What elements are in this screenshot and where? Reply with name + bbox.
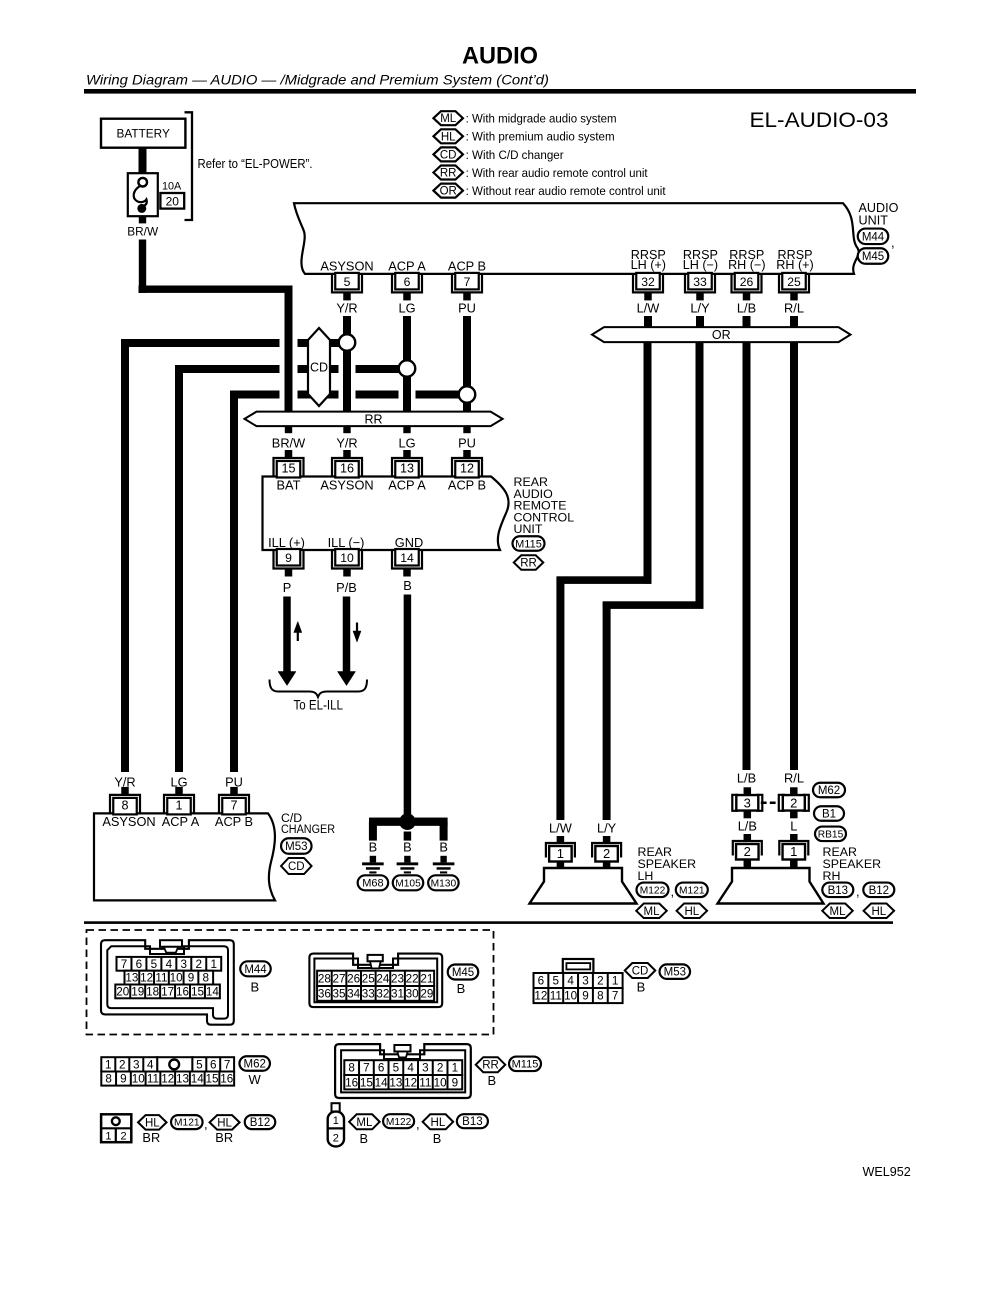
- svg-text:B: B: [403, 578, 412, 593]
- svg-text:1: 1: [790, 844, 797, 859]
- svg-text:HL: HL: [145, 1117, 160, 1129]
- dashed group box (M44/M45): [87, 930, 494, 1035]
- section divider line: [84, 921, 893, 924]
- connector M121 oval: [676, 883, 708, 898]
- svg-text:HL: HL: [684, 906, 699, 918]
- wire L/Y pin33 down: [696, 316, 704, 327]
- arrow down (illumination -): [356, 623, 358, 634]
- svg-text:M44: M44: [244, 964, 267, 976]
- option hexagon HL (RH speaker): [864, 904, 895, 919]
- svg-text:1: 1: [612, 975, 619, 988]
- svg-text:1: 1: [333, 1115, 339, 1127]
- svg-text:9: 9: [188, 972, 195, 985]
- svg-text:1: 1: [557, 846, 564, 861]
- svg-text:27: 27: [333, 972, 346, 985]
- svg-text:BR/W: BR/W: [127, 224, 159, 238]
- svg-text:PU: PU: [458, 300, 476, 315]
- svg-text:B: B: [487, 1073, 496, 1088]
- svg-text:EL-AUDIO-03: EL-AUDIO-03: [750, 108, 889, 132]
- svg-text:M45: M45: [862, 251, 884, 263]
- svg-text:M121: M121: [174, 1118, 200, 1129]
- connector face M45 latch: [368, 955, 383, 961]
- connector face M44 pin row 3: [115, 985, 220, 999]
- svg-text:B12: B12: [869, 885, 889, 897]
- svg-text:B13: B13: [828, 885, 848, 897]
- svg-text:B: B: [457, 981, 466, 996]
- wire stub + label LG above pin: [403, 426, 410, 433]
- connector face M53 pin row 2: [534, 988, 623, 1003]
- svg-text:11: 11: [155, 972, 167, 985]
- wire L/Y below banner elbow: [696, 342, 704, 608]
- svg-text:W: W: [249, 1072, 262, 1087]
- svg-text:RR: RR: [520, 558, 537, 570]
- option hexagon CD on branch wires: [308, 328, 330, 406]
- svg-text:M122: M122: [640, 885, 666, 896]
- wire L/W below banner elbow: [644, 342, 652, 584]
- svg-text:HL: HL: [217, 1117, 232, 1129]
- ground bus horizontal: [369, 818, 448, 826]
- svg-text:ILL (−): ILL (−): [328, 535, 365, 550]
- svg-text:L/B: L/B: [737, 300, 756, 315]
- svg-text:,: ,: [856, 884, 860, 899]
- svg-text:12: 12: [161, 1073, 174, 1086]
- svg-text:ACP B: ACP B: [448, 478, 486, 493]
- svg-text:34: 34: [347, 987, 361, 1000]
- svg-text:1: 1: [175, 798, 182, 812]
- svg-text:2: 2: [120, 1131, 126, 1143]
- option hexagon RR (M115): [476, 1057, 506, 1072]
- connector face M53 pin row 1: [534, 973, 623, 988]
- connector face M44 outline: [101, 940, 234, 1024]
- svg-text:UNIT: UNIT: [859, 214, 889, 228]
- connector face M62 pin row 2: [101, 1072, 234, 1086]
- svg-text:: Without rear audio remote co: : Without rear audio remote control unit: [466, 184, 667, 198]
- svg-text:1: 1: [105, 1131, 111, 1143]
- svg-text:10: 10: [340, 551, 354, 565]
- ground symbol M105: [404, 856, 410, 863]
- svg-text:3: 3: [181, 958, 188, 971]
- junction circle LG: [399, 360, 416, 377]
- svg-text:LH: LH: [638, 869, 654, 883]
- svg-text:14: 14: [206, 985, 220, 998]
- svg-text:9: 9: [582, 990, 589, 1003]
- svg-text:1: 1: [210, 958, 217, 971]
- connector face M45 pin row 1: [317, 971, 434, 986]
- ground branch mid stub: [404, 832, 412, 841]
- connector face M115 pin row 2: [344, 1075, 462, 1089]
- svg-text:CHANGER: CHANGER: [281, 822, 335, 836]
- audio unit pin 32: [633, 274, 663, 293]
- wire Y/R branch horizontal: [121, 339, 280, 347]
- connector M122 oval: [637, 883, 669, 898]
- svg-text:4: 4: [407, 1062, 414, 1075]
- svg-text:B13: B13: [462, 1116, 482, 1128]
- wire LG branch horizontal: [175, 365, 280, 373]
- option hexagon ML (M122): [349, 1114, 380, 1129]
- svg-text:HL: HL: [871, 906, 886, 918]
- svg-text:BR/W: BR/W: [272, 435, 306, 450]
- svg-text:M122: M122: [386, 1117, 412, 1128]
- svg-text:7: 7: [612, 990, 619, 1003]
- svg-text:ASYSON: ASYSON: [102, 814, 155, 829]
- svg-text:9: 9: [120, 1073, 127, 1086]
- connector B13 oval id: [457, 1114, 488, 1128]
- junction circle Y/R: [339, 334, 356, 351]
- connector M122 oval id: [383, 1114, 414, 1128]
- svg-text:ACP B: ACP B: [215, 814, 253, 829]
- C/D changer box: [94, 813, 275, 900]
- svg-text:,: ,: [891, 235, 895, 250]
- svg-text:6: 6: [136, 958, 143, 971]
- connector B12 oval: [863, 883, 894, 898]
- svg-text:19: 19: [131, 985, 144, 998]
- junction circle PU: [459, 386, 476, 403]
- svg-text:GND: GND: [395, 535, 423, 550]
- svg-text:7: 7: [230, 798, 237, 812]
- svg-text:Refer to “EL-POWER”.: Refer to “EL-POWER”.: [198, 156, 313, 171]
- svg-text:6: 6: [538, 975, 545, 988]
- svg-text:L/W: L/W: [637, 300, 661, 315]
- audio unit connector M44 oval: [858, 229, 889, 245]
- svg-text:10: 10: [132, 1073, 146, 1086]
- connector face M115 outline: [335, 1044, 471, 1098]
- svg-text:12: 12: [140, 972, 153, 985]
- svg-text:15: 15: [281, 462, 295, 476]
- svg-text:AUDIO: AUDIO: [462, 43, 538, 70]
- svg-text:12: 12: [460, 462, 474, 476]
- svg-text:11: 11: [419, 1076, 431, 1089]
- svg-text:29: 29: [420, 987, 433, 1000]
- label BR/W (fuse output): [139, 216, 146, 223]
- svg-text:11: 11: [147, 1073, 159, 1086]
- audio unit pin 25: [779, 274, 809, 293]
- wire Y/R pin5 down: [343, 316, 351, 412]
- svg-text:9: 9: [452, 1076, 459, 1089]
- svg-text:ML: ML: [830, 906, 847, 918]
- audio unit pin 33: [685, 274, 715, 293]
- svg-text:25: 25: [362, 972, 376, 985]
- svg-text:33: 33: [693, 275, 707, 289]
- svg-text:L/W: L/W: [549, 821, 573, 836]
- inline connector pin 2 (M62/B1): [790, 787, 798, 795]
- svg-text:20: 20: [166, 194, 180, 208]
- audio unit pin 7: [452, 274, 482, 293]
- svg-text:RR: RR: [365, 412, 383, 426]
- rear speaker RH symbol: [718, 868, 824, 904]
- svg-text:32: 32: [641, 275, 655, 289]
- rear audio remote control unit pin 10: [332, 550, 362, 569]
- svg-text:2: 2: [790, 795, 797, 810]
- svg-text:PU: PU: [458, 435, 476, 450]
- option hexagon HL (B13): [423, 1114, 454, 1129]
- legend RR: [433, 166, 463, 180]
- svg-text:25: 25: [787, 275, 801, 289]
- svg-text:R/L: R/L: [784, 771, 804, 786]
- banner RR: [245, 412, 503, 427]
- svg-text:9: 9: [285, 551, 292, 565]
- svg-text:M62: M62: [244, 1059, 266, 1071]
- svg-text:16: 16: [345, 1076, 358, 1089]
- svg-text:1: 1: [452, 1062, 459, 1075]
- svg-text:2: 2: [744, 844, 751, 859]
- svg-text:OR: OR: [712, 328, 731, 342]
- svg-text:16: 16: [176, 985, 189, 998]
- svg-text:3: 3: [422, 1062, 429, 1075]
- svg-text:32: 32: [376, 987, 389, 1000]
- svg-text:UNIT: UNIT: [514, 522, 543, 536]
- svg-text:LG: LG: [398, 300, 415, 315]
- svg-text:17: 17: [161, 985, 174, 998]
- connector face M44 pin row 1: [117, 957, 222, 971]
- rear speaker RH pin 2: [744, 834, 752, 841]
- svg-text:L: L: [790, 819, 797, 834]
- svg-text:13: 13: [125, 972, 138, 985]
- svg-text:8: 8: [105, 1073, 112, 1086]
- svg-text:M68: M68: [362, 878, 383, 890]
- rear speaker LH symbol: [530, 868, 637, 904]
- arrow up (illumination +): [297, 630, 299, 641]
- svg-text:11: 11: [550, 990, 562, 1003]
- audio unit connector M45 oval: [858, 248, 889, 264]
- svg-text:12: 12: [404, 1076, 417, 1089]
- wire R/L below banner: [790, 342, 798, 770]
- refer-to bracket: [185, 112, 193, 220]
- svg-text:: With rear audio remote contr: : With rear audio remote control unit: [466, 166, 649, 180]
- wire BR/W vertical to RR banner: [139, 240, 146, 293]
- svg-text:7: 7: [363, 1062, 370, 1075]
- svg-text:5: 5: [553, 975, 560, 988]
- svg-text:20: 20: [116, 985, 130, 998]
- C/D changer pin 8: [110, 795, 140, 814]
- audio unit pin 26: [732, 274, 762, 293]
- connector M62 oval (inline): [813, 783, 845, 798]
- connector M44 oval id: [240, 961, 271, 976]
- svg-text:: With premium audio system: : With premium audio system: [466, 130, 615, 144]
- rear audio remote control unit pin 12: [452, 458, 482, 477]
- svg-text:6: 6: [378, 1062, 385, 1075]
- svg-text:B: B: [637, 980, 646, 995]
- svg-text:15: 15: [205, 1073, 219, 1086]
- svg-text:12: 12: [534, 990, 547, 1003]
- svg-text:BATTERY: BATTERY: [117, 127, 170, 141]
- svg-text:LH (−): LH (−): [683, 258, 718, 272]
- svg-text:B12: B12: [250, 1117, 270, 1129]
- svg-text:M53: M53: [664, 967, 686, 979]
- connector M53 oval (C/D): [281, 838, 312, 854]
- svg-text:2: 2: [333, 1133, 339, 1145]
- rear audio remote control unit pin 15: [274, 458, 304, 477]
- C/D changer pin 7: [219, 795, 249, 814]
- svg-text:RB15: RB15: [818, 829, 844, 840]
- svg-text:ML: ML: [440, 113, 457, 125]
- svg-text:8: 8: [121, 798, 128, 812]
- battery: [101, 119, 185, 148]
- svg-text:L/Y: L/Y: [597, 821, 617, 836]
- svg-text:To EL-ILL: To EL-ILL: [294, 698, 344, 713]
- connector M62 oval id: [239, 1056, 270, 1071]
- rear audio remote control unit pin 16: [332, 458, 362, 477]
- svg-text:24: 24: [376, 972, 390, 985]
- svg-text:2: 2: [196, 958, 203, 971]
- connector M68 oval: [358, 875, 389, 890]
- svg-text:31: 31: [391, 987, 404, 1000]
- svg-text:M53: M53: [285, 841, 307, 853]
- connector face M45 pin row 2: [317, 986, 434, 1001]
- rear audio remote control unit pin 9: [274, 550, 304, 569]
- audio unit box: [294, 203, 859, 274]
- option hexagon ML (RH speaker): [822, 904, 853, 919]
- svg-text:CD: CD: [632, 966, 649, 978]
- svg-text:21: 21: [420, 972, 433, 985]
- svg-text:8: 8: [348, 1062, 355, 1075]
- wire L/B pin26 down: [743, 316, 751, 327]
- banner OR: [592, 327, 851, 342]
- svg-text:RH: RH: [823, 869, 841, 883]
- wire L/B below banner: [743, 342, 751, 770]
- svg-text:3: 3: [744, 795, 751, 810]
- wire stub + label Y/R above pin: [343, 426, 350, 433]
- svg-text:ACP A: ACP A: [388, 259, 426, 274]
- option hexagon CD tag (C/D): [281, 858, 312, 874]
- svg-text:15: 15: [360, 1076, 374, 1089]
- svg-text:ACP A: ACP A: [162, 814, 200, 829]
- rear audio remote control unit pin 13: [392, 458, 422, 477]
- svg-text:7: 7: [224, 1058, 231, 1071]
- svg-text:M45: M45: [452, 967, 474, 979]
- svg-text:CD: CD: [440, 149, 457, 161]
- svg-text:2: 2: [437, 1062, 444, 1075]
- svg-text:35: 35: [333, 987, 347, 1000]
- svg-text:: With midgrade audio system: : With midgrade audio system: [466, 112, 617, 126]
- svg-text:L/B: L/B: [738, 819, 757, 834]
- svg-text:Y/R: Y/R: [336, 435, 357, 450]
- svg-text:ML: ML: [644, 906, 661, 918]
- svg-text:M44: M44: [862, 231, 885, 243]
- legend HL: [433, 129, 463, 143]
- svg-text:RR: RR: [440, 168, 457, 180]
- svg-text:CD: CD: [310, 361, 328, 375]
- connector face M121 (2-pin): [101, 1114, 131, 1142]
- svg-text:14: 14: [400, 551, 414, 565]
- rear speaker RH pin 1: [790, 834, 798, 841]
- option hexagon ML (LH speaker): [636, 904, 667, 919]
- svg-text:8: 8: [202, 972, 209, 985]
- svg-text:36: 36: [318, 987, 331, 1000]
- svg-text:ASYSON: ASYSON: [320, 478, 373, 493]
- connector B13 oval: [822, 883, 853, 898]
- svg-text:10: 10: [170, 972, 184, 985]
- svg-text:L/B: L/B: [737, 771, 756, 786]
- wire battery to fuse: [139, 148, 147, 174]
- svg-text:Wiring Diagram — AUDIO — /Midg: Wiring Diagram — AUDIO — /Midgrade and P…: [86, 73, 549, 89]
- rear speaker LH pin 2: [603, 836, 611, 843]
- connector face M62 pin row 1: [101, 1057, 157, 1071]
- svg-text:13: 13: [176, 1073, 189, 1086]
- legend ML: [433, 111, 463, 125]
- svg-text:6: 6: [404, 275, 411, 289]
- wire P with arrow to EL-ILL: [283, 597, 291, 672]
- wire BR/W horizontal from fuse: [139, 286, 293, 293]
- svg-text:LG: LG: [398, 435, 415, 450]
- svg-text:14: 14: [375, 1076, 389, 1089]
- svg-text:L/Y: L/Y: [690, 300, 710, 315]
- wire PU branch vertical: [230, 391, 238, 773]
- svg-text:B: B: [403, 840, 412, 855]
- wire stub + label PU above pin: [463, 426, 470, 433]
- svg-text:RH (−): RH (−): [728, 258, 765, 272]
- wire R/L pin25 down: [790, 316, 798, 327]
- svg-text:23: 23: [391, 972, 404, 985]
- svg-text:M62: M62: [818, 785, 840, 797]
- legend CD: [433, 147, 463, 161]
- audio unit pin 5: [332, 274, 362, 293]
- svg-text:HL: HL: [441, 131, 456, 143]
- svg-text:BR: BR: [215, 1130, 233, 1145]
- svg-text:15: 15: [191, 985, 205, 998]
- svg-text:B1: B1: [822, 809, 836, 821]
- svg-text:RR: RR: [482, 1060, 499, 1072]
- svg-text:BR: BR: [142, 1130, 160, 1145]
- ground symbol M68: [370, 856, 376, 863]
- svg-text:2: 2: [119, 1058, 126, 1071]
- connector face M45 outline: [309, 954, 442, 1008]
- inline connector pin 3 (M62/B1): [744, 787, 752, 795]
- svg-text:M115: M115: [512, 1059, 539, 1071]
- svg-text:M130: M130: [431, 878, 457, 889]
- svg-text:7: 7: [464, 275, 471, 289]
- svg-text:P: P: [283, 580, 292, 595]
- option hexagon RR tag: [514, 555, 544, 570]
- connector RB15 oval (inline): [815, 827, 846, 842]
- svg-text:16: 16: [340, 462, 354, 476]
- svg-text:5: 5: [196, 1058, 203, 1071]
- rear audio remote control unit pin 14: [392, 550, 422, 569]
- wire LG branch vertical: [175, 365, 183, 772]
- connector B1 oval (inline): [814, 806, 844, 821]
- connector face M53 latch: [563, 959, 594, 973]
- svg-text:B: B: [433, 1131, 442, 1146]
- svg-text:LH (+): LH (+): [631, 258, 666, 272]
- svg-text:B: B: [369, 840, 378, 855]
- svg-text:Y/R: Y/R: [336, 300, 357, 315]
- connector M115 oval id: [509, 1057, 541, 1072]
- rear audio remote control unit box: [263, 477, 509, 551]
- option hexagon CD (M53): [625, 963, 656, 978]
- svg-text:3: 3: [133, 1058, 140, 1071]
- svg-text:6: 6: [210, 1058, 217, 1071]
- svg-text:4: 4: [567, 975, 574, 988]
- svg-text:ASYSON: ASYSON: [320, 259, 373, 274]
- svg-text:22: 22: [406, 972, 419, 985]
- svg-text:16: 16: [220, 1073, 233, 1086]
- svg-text:M105: M105: [395, 878, 421, 889]
- svg-text:,: ,: [204, 1117, 208, 1132]
- svg-text:2: 2: [603, 846, 610, 861]
- svg-text:2: 2: [597, 975, 604, 988]
- svg-text:OR: OR: [440, 186, 457, 198]
- rear speaker LH pin 1: [557, 836, 565, 843]
- svg-text:13: 13: [400, 462, 414, 476]
- connector M130 oval: [428, 875, 459, 890]
- svg-text:10: 10: [434, 1076, 448, 1089]
- option hexagon HL (LH speaker): [677, 904, 708, 919]
- connector M53 oval id: [660, 964, 691, 979]
- ground symbol M130: [440, 856, 446, 863]
- connector M121 oval id: [171, 1115, 203, 1129]
- C/D changer pin 1: [164, 795, 194, 814]
- svg-text:ML: ML: [356, 1117, 373, 1129]
- svg-text:10A: 10A: [162, 180, 182, 192]
